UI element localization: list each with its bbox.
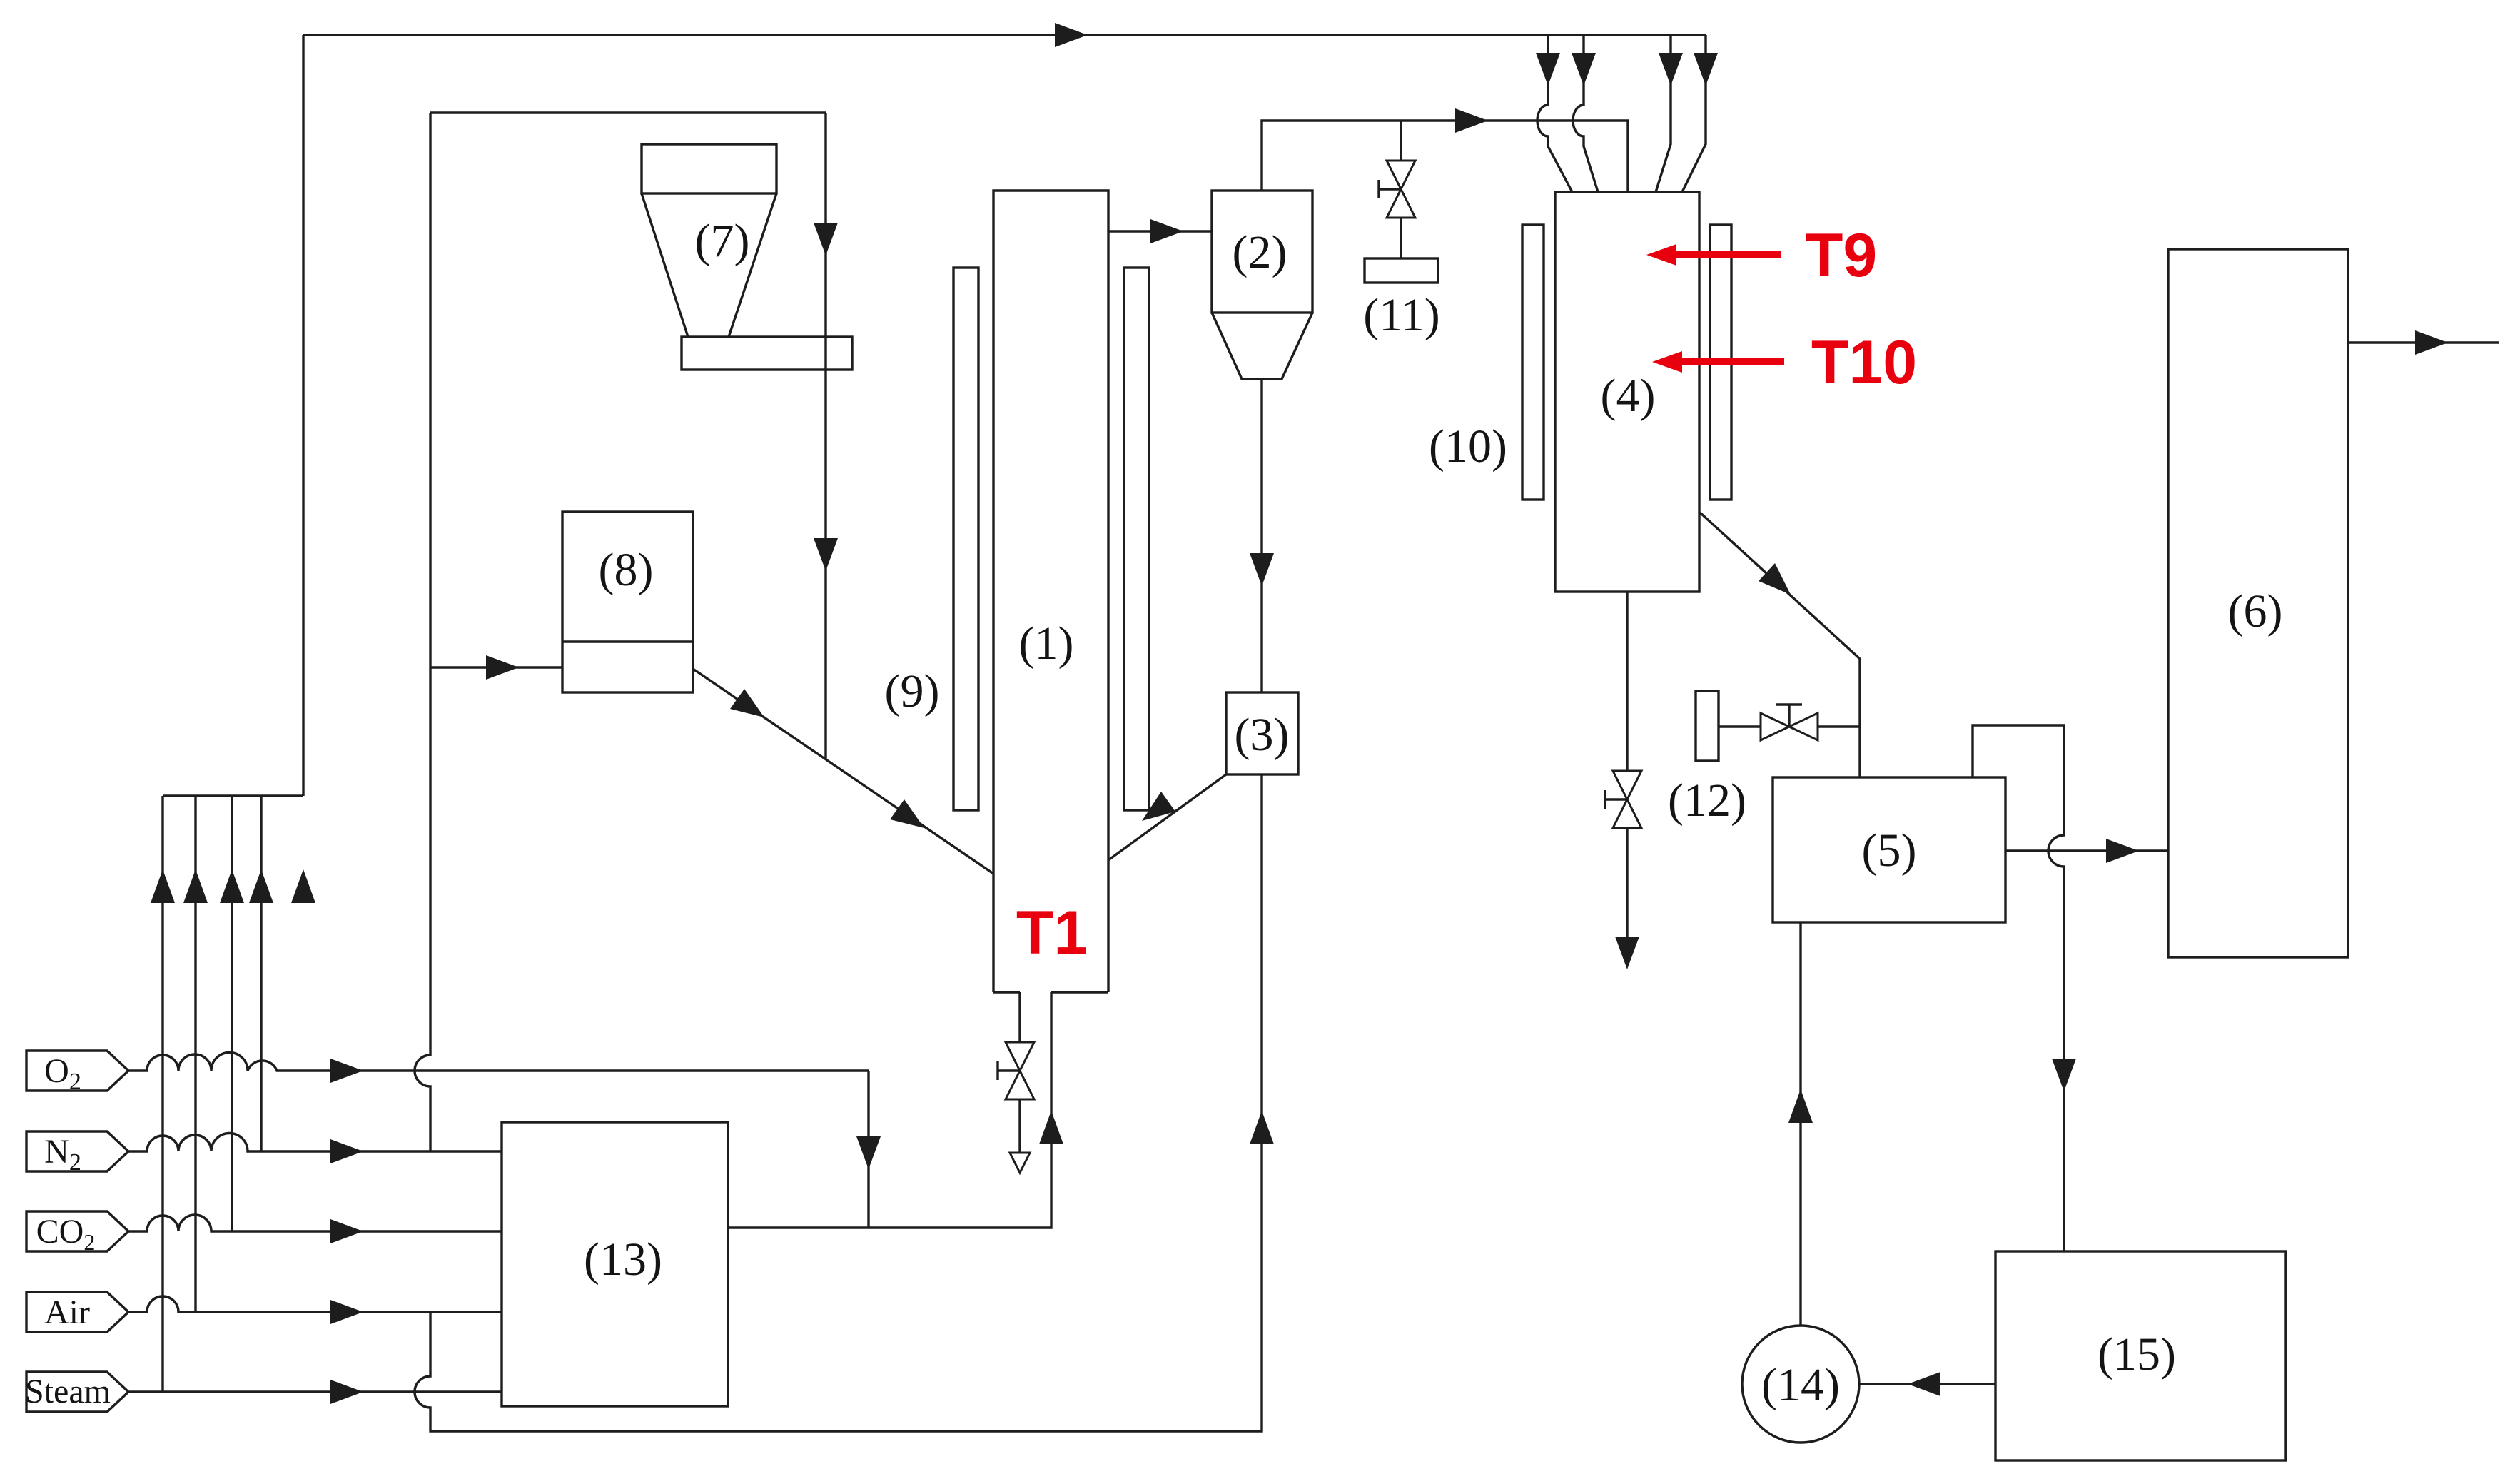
- wire: CO2 supply line with crossing hops: [128, 1215, 502, 1231]
- wire: recycle gas top header line: [303, 34, 1706, 36]
- arrow on O2 branch: [856, 1136, 881, 1169]
- svg-text:(7): (7): [695, 215, 750, 267]
- wire: branch down to filter (11): [1400, 121, 1402, 258]
- arrow on Air supply line: [330, 1300, 363, 1324]
- wire: feed branch into screw feeder (8): [430, 666, 562, 668]
- arrow on cyclone gas outlet line: [1455, 108, 1488, 133]
- drain valve under riser (1): [998, 1042, 1034, 1099]
- drain valve under reformer (4): [1605, 771, 1641, 828]
- open arrow at riser drain outlet: [1010, 1153, 1030, 1173]
- wire: cyclone gas outlet line to reformer (4): [1262, 121, 1628, 192]
- arrow on inlet stub 2: [1572, 53, 1596, 86]
- wire: outer loop left vertical riser: [302, 35, 304, 796]
- node: Steam source flag: [25, 1372, 128, 1412]
- filter (11) plate: [1365, 258, 1438, 283]
- wire: aeration line from Air junction to loop seal (3) with hop over Steam line: [415, 774, 1262, 1431]
- wire: reformer (4) bottom drain: [1626, 592, 1628, 937]
- arrow on o2 riser: [291, 869, 315, 903]
- hopper (7) cone: [642, 193, 776, 337]
- svg-text:(1): (1): [1019, 617, 1074, 670]
- wire: riser (1) bottom drain line: [1018, 992, 1021, 1167]
- node: O2 source flag: [26, 1051, 128, 1095]
- arrow down on recirculation line: [2052, 1059, 2076, 1091]
- valve on (12) line: [1761, 705, 1818, 740]
- svg-text:Air: Air: [44, 1293, 90, 1331]
- wire: feeder (8) outlet diagonal into riser (1): [693, 669, 993, 874]
- condenser (5) box: [1773, 777, 2005, 922]
- svg-text:(11): (11): [1363, 289, 1440, 341]
- screw feeder (8) box: [562, 512, 693, 692]
- arrow on steam riser: [151, 869, 175, 903]
- wire: condenser (5) outlet to analyzer (6): [2005, 849, 2168, 852]
- wire: reformer inlet stub 1 with hop: [1537, 35, 1572, 192]
- svg-text:(4): (4): [1601, 370, 1656, 422]
- arrow 2 on feeder diagonal: [890, 799, 924, 828]
- wire: N2 supply line with crossing hops: [128, 1134, 502, 1151]
- wire: line from (12) to condenser inlet: [1719, 725, 1860, 727]
- hopper (7) top rectangle: [642, 144, 776, 193]
- red arrow T10: [1652, 351, 1784, 373]
- cyclone (2) body: [1212, 191, 1312, 313]
- heater (9) right bar: [1124, 268, 1149, 810]
- wire: inner recycle loop left vertical with hop over O2 line: [415, 113, 430, 1151]
- arrow up on gasifier feed line: [1039, 1111, 1063, 1144]
- wire: inner recycle loop top line: [430, 111, 826, 113]
- wire: reformer inlet stub 2 with hop: [1573, 35, 1598, 192]
- arrow 1 on feeder diagonal: [730, 689, 764, 717]
- wire: steam riser: [161, 796, 163, 1392]
- svg-text:(12): (12): [1668, 774, 1746, 827]
- wire: Steam supply line: [128, 1390, 502, 1393]
- gas mixing station (13) box: [502, 1122, 728, 1406]
- arrow on co2 riser: [220, 869, 244, 903]
- arrow on O2 supply line: [330, 1059, 363, 1083]
- arrow upper on solids downcomer: [814, 223, 838, 256]
- valve above filter (11): [1379, 161, 1415, 218]
- wire: pump (14) to condenser (5) coolant line: [1799, 922, 1801, 1326]
- wire: analyzer (6) vent line: [2348, 341, 2499, 343]
- svg-text:T1: T1: [1016, 899, 1088, 967]
- svg-text:(9): (9): [885, 665, 940, 717]
- riser reactor (1) bottom edges: [993, 991, 1108, 993]
- svg-text:(3): (3): [1235, 709, 1290, 761]
- svg-text:T10: T10: [1811, 328, 1917, 397]
- sampling port (12) body: [1696, 691, 1719, 761]
- red arrow T9: [1646, 244, 1781, 266]
- wire: reformer (4) outlet diagonal to condenser (5): [1700, 513, 1860, 777]
- wire: water bath (15) to pump (14): [1859, 1383, 1995, 1385]
- arrow on air riser: [183, 869, 208, 903]
- wire: O2 branch down to gasifier inlet line: [867, 1071, 869, 1228]
- wire: O2 supply line with crossing hops: [128, 1053, 869, 1071]
- wire: gas bus manifold line: [163, 794, 303, 797]
- arrow on bath-to-pump line: [1908, 1372, 1940, 1396]
- svg-text:(6): (6): [2228, 585, 2283, 637]
- heater (9) left bar: [953, 268, 978, 810]
- arrow on Steam supply line: [330, 1380, 363, 1404]
- wire: gasifier feed line from (13) up into riser (1): [728, 992, 1051, 1228]
- svg-text:(14): (14): [1761, 1359, 1840, 1411]
- cyclone (2) cone: [1212, 313, 1312, 379]
- riser reactor (1) body: [993, 191, 1108, 992]
- wire: co2 riser: [231, 796, 233, 1231]
- gas analyzer (6) box: [2168, 249, 2348, 957]
- wire: reformer inlet stub 3: [1656, 35, 1671, 192]
- arrow on N2 supply line: [330, 1139, 363, 1163]
- arrow on analyzer vent line: [2415, 330, 2448, 355]
- heater (10) left bar: [1522, 225, 1544, 500]
- arrow up on coolant line: [1788, 1089, 1813, 1123]
- arrow at reformer drain outlet: [1615, 937, 1639, 969]
- arrow on top header line: [1055, 23, 1088, 47]
- loop seal (3) box: [1226, 692, 1298, 774]
- svg-text:Steam: Steam: [25, 1373, 111, 1410]
- wire: n2 riser: [260, 796, 262, 1151]
- pump (14) circle: [1742, 1326, 1859, 1443]
- node: N2 source flag: [26, 1131, 128, 1176]
- wire: cyclone dipleg down to loop seal (3): [1260, 379, 1262, 692]
- wire: solids feed downcomer: [824, 113, 826, 759]
- arrow lower on solids downcomer: [814, 538, 838, 571]
- arrow up on loop seal aeration riser: [1250, 1111, 1274, 1144]
- svg-text:(13): (13): [584, 1233, 662, 1286]
- svg-text:(15): (15): [2098, 1328, 2176, 1380]
- screw feeder (8) divider line: [562, 640, 693, 642]
- arrow on reformer outlet diagonal: [1759, 563, 1791, 595]
- arrow on inlet stub 3: [1659, 53, 1683, 86]
- arrow on inlet stub 4: [1694, 53, 1718, 86]
- arrow on condenser outlet line: [2106, 839, 2139, 863]
- wire: riser (1) outlet pipe to cyclone (2): [1108, 230, 1212, 232]
- svg-text:T9: T9: [1806, 221, 1877, 290]
- wire: Air supply line with crossing hop: [128, 1296, 502, 1312]
- arrow on CO2 supply line: [330, 1219, 363, 1243]
- arrow on riser outlet pipe: [1150, 219, 1183, 243]
- wire: reformer inlet stub 4: [1682, 35, 1706, 192]
- svg-text:(5): (5): [1862, 824, 1917, 877]
- wire: air riser: [194, 796, 196, 1312]
- node: CO2 source flag: [26, 1211, 128, 1255]
- arrow on cyclone dipleg: [1250, 553, 1274, 586]
- water bath (15) box: [1995, 1251, 2286, 1460]
- arrow on loop seal return diagonal: [1142, 792, 1175, 821]
- rotary feeder under hopper: [682, 337, 852, 370]
- reformer reactor (4) body: [1555, 192, 1699, 592]
- svg-text:(10): (10): [1429, 420, 1507, 473]
- wire: condenser top recirculation line with hop down to water bath (15): [1973, 725, 2064, 1251]
- arrow on n2 riser: [249, 869, 273, 903]
- svg-text:(2): (2): [1233, 226, 1287, 278]
- wire: loop seal (3) return diagonal into riser (1): [1108, 774, 1226, 860]
- arrow on feed branch to (8): [486, 655, 519, 680]
- svg-text:(8): (8): [599, 544, 654, 596]
- node: Air source flag: [26, 1292, 128, 1332]
- heater (10) right bar: [1710, 225, 1731, 500]
- arrow on inlet stub 1: [1536, 53, 1560, 86]
